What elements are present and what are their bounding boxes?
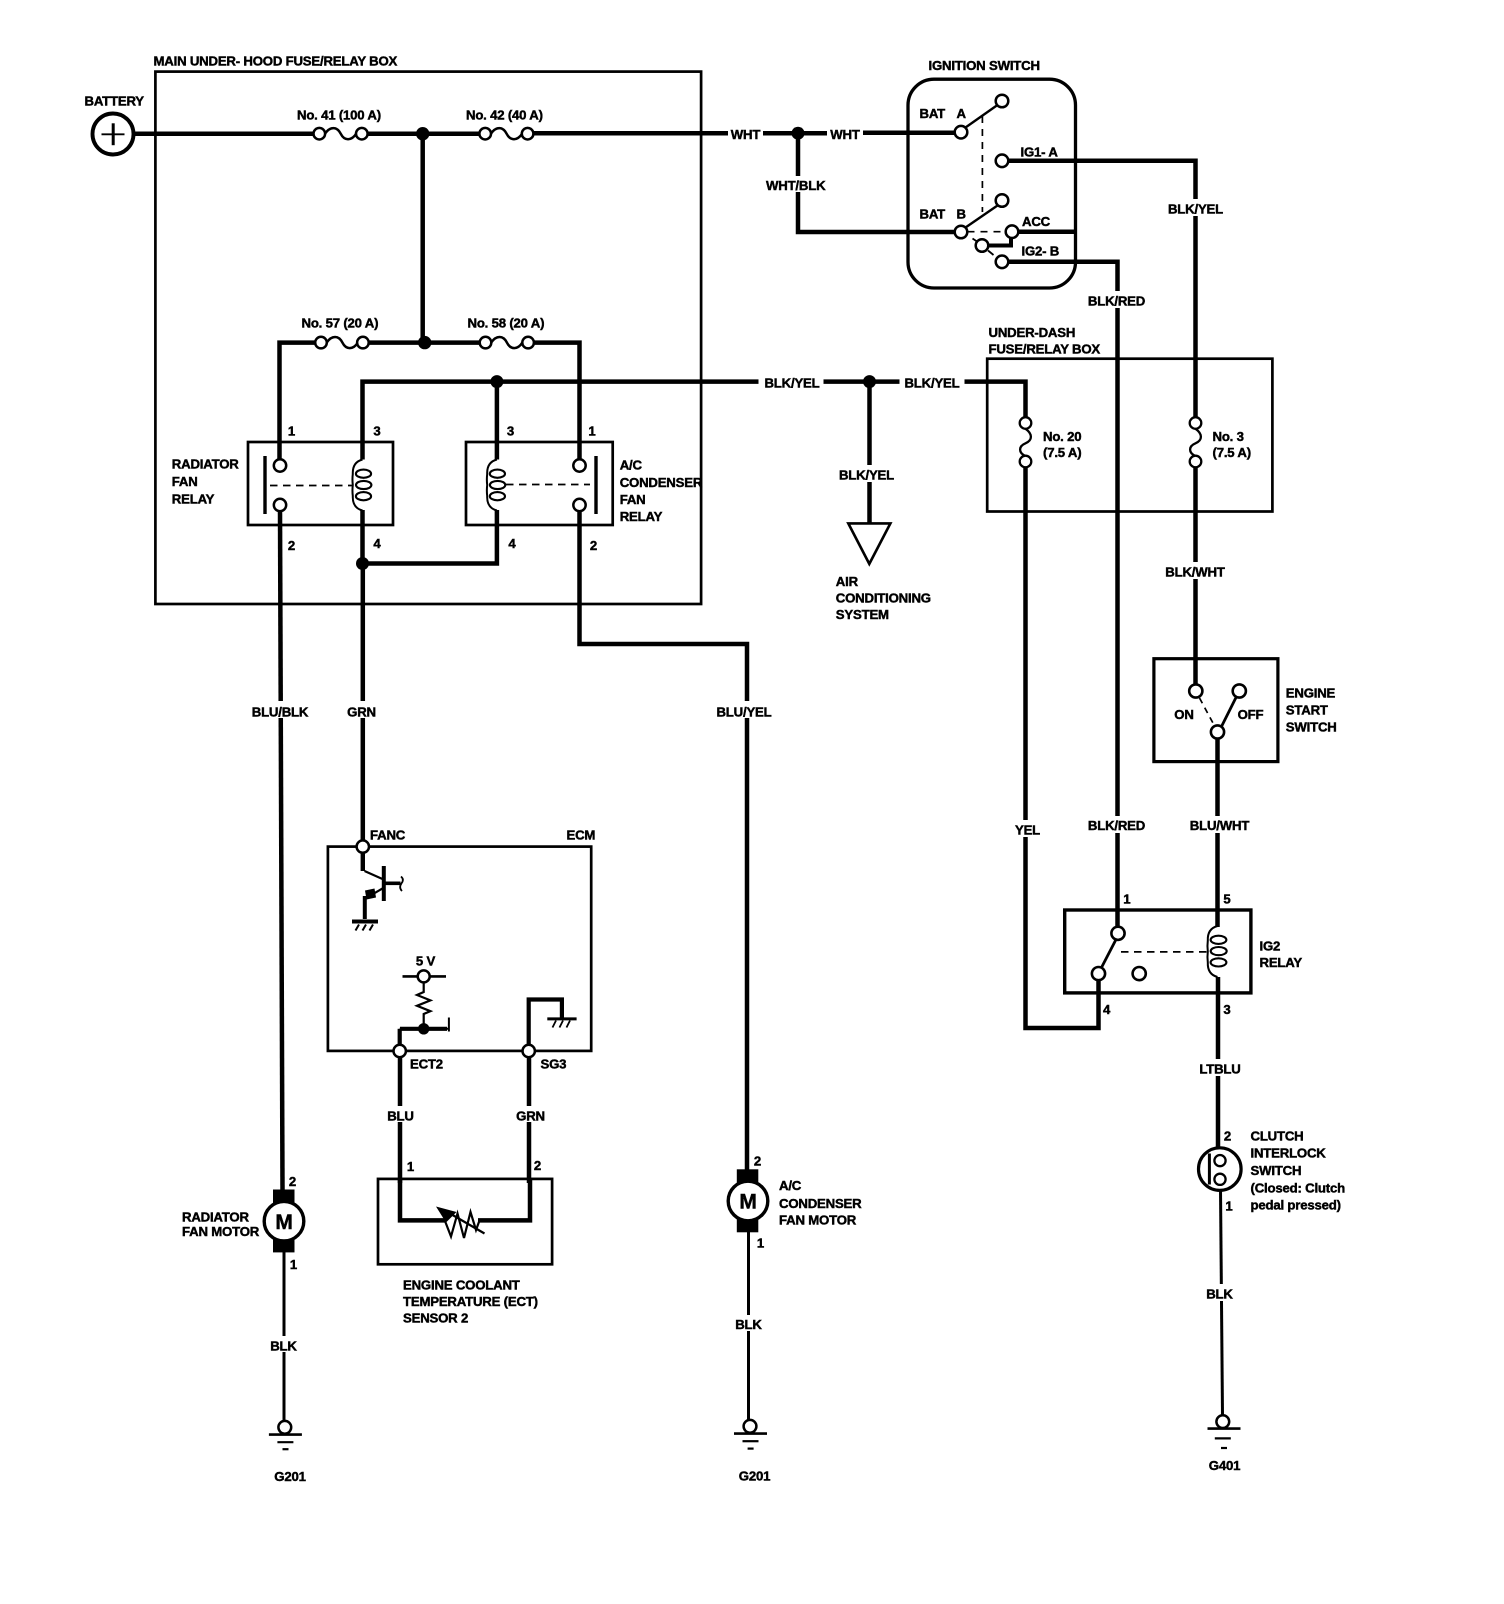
pin 2 contact [274,499,286,511]
wire battery to fuse41 [134,131,316,136]
svg-text:2: 2 [590,538,597,553]
blade BAT B [966,206,998,228]
svg-text:A/C: A/C [620,458,643,473]
svg-text:1: 1 [1123,892,1130,907]
svg-text:A/C: A/C [779,1178,802,1193]
wire GRN relay to ECM FANC [361,564,366,842]
svg-text:FAN MOTOR: FAN MOTOR [779,1213,857,1228]
junction node relay pin4 bus [356,557,369,570]
IG2 relay internals [1092,926,1227,980]
svg-text:2: 2 [289,1174,296,1189]
svg-text:SWITCH: SWITCH [1251,1163,1302,1178]
svg-text:TEMPERATURE (ECT): TEMPERATURE (ECT) [403,1294,538,1309]
label masks [251,125,1253,1352]
wire radiator motor to ground G201 [283,1252,286,1422]
svg-text:BLK: BLK [735,1317,762,1332]
svg-text:(7.5 A): (7.5 A) [1213,445,1251,460]
ignition switch internals [955,95,1019,268]
terminal pin4 [1092,967,1105,980]
svg-text:GRN: GRN [516,1109,545,1124]
coil loops [1211,936,1227,967]
svg-text:FAN MOTOR: FAN MOTOR [182,1224,260,1239]
svg-text:ON: ON [1174,707,1193,722]
svg-text:G201: G201 [274,1469,305,1484]
svg-text:(Closed: Clutch: (Closed: Clutch [1251,1181,1346,1196]
svg-text:3: 3 [373,424,380,439]
ground G201 left [269,1421,302,1449]
svg-text:IGNITION SWITCH: IGNITION SWITCH [929,58,1040,73]
junction node BLK/YEL at A/C coil [490,375,503,388]
svg-text:UNDER-DASH: UNDER-DASH [989,325,1076,340]
terminal ACC [1006,225,1019,238]
svg-text:M: M [275,1211,292,1234]
coil loops [356,470,372,501]
svg-text:5 V: 5 V [416,954,436,969]
svg-text:No. 57 (20 A): No. 57 (20 A) [302,316,379,331]
ECM transistor emitter ground [352,920,378,924]
svg-text:BLK: BLK [1206,1287,1233,1302]
svg-text:BLU/YEL: BLU/YEL [716,705,771,720]
terminal pin1 [1111,927,1124,940]
svg-text:BLK/WHT: BLK/WHT [1165,565,1225,580]
wire ACC stub [1018,229,1075,234]
svg-text:2: 2 [1224,1129,1231,1144]
terminal bottom [1211,725,1224,738]
ECM 5V supply [403,970,447,982]
svg-text:MAIN UNDER- HOOD FUSE/RELAY BO: MAIN UNDER- HOOD FUSE/RELAY BOX [154,54,398,69]
svg-text:BLK/YEL: BLK/YEL [839,468,894,483]
radiator fan relay box [248,442,393,525]
air conditioning system triangle [848,523,890,564]
svg-text:BLU/BLK: BLU/BLK [252,705,309,720]
battery [93,114,134,155]
link ACC wire [988,237,1011,246]
svg-text:RADIATOR: RADIATOR [172,457,239,472]
ground G401 [1208,1415,1241,1448]
fuse No.3 [1190,417,1202,467]
svg-text:ENGINE COOLANT: ENGINE COOLANT [403,1278,520,1293]
svg-text:3: 3 [507,424,514,439]
svg-text:1: 1 [588,424,595,439]
svg-text:FANC: FANC [370,828,406,843]
svg-text:A: A [957,106,967,121]
svg-text:No. 42 (40 A): No. 42 (40 A) [466,108,543,123]
blade OFF [1222,697,1237,727]
svg-text:IG1- A: IG1- A [1021,145,1059,160]
svg-text:ACC: ACC [1022,214,1051,229]
svg-text:pedal pressed): pedal pressed) [1251,1198,1341,1213]
svg-text:ECM: ECM [567,828,596,843]
terminal IG2-B [996,255,1009,268]
ECM pull-up resistor [417,983,430,1026]
ECM terminal FANC [357,840,369,852]
pin 2 contact [573,499,585,511]
wire YEL fuse No.20 down and to IG2 relay pin4 [1026,467,1099,1028]
wire BLK/YEL branch to air conditioning triangle [867,382,872,523]
wire fuse41 to fuse42 [365,131,482,136]
wire BLU/BLK radiator relay pin2 to motor [280,510,283,1190]
svg-text:BLK/YEL: BLK/YEL [764,376,819,391]
wire fuse57/58 row [280,343,580,461]
fuse No.41 [314,128,368,140]
dashed link vertical [981,116,983,212]
radiator fan motor [264,1190,304,1253]
fuse No.58 [480,337,534,349]
svg-text:LTBLU: LTBLU [1199,1062,1240,1077]
svg-text:BATTERY: BATTERY [85,94,145,109]
svg-text:2: 2 [288,538,295,553]
svg-text:IG2: IG2 [1260,939,1281,954]
svg-text:4: 4 [1103,1002,1111,1017]
terminal switch B top [996,194,1009,207]
terminal IG1-A [996,155,1009,168]
svg-text:YEL: YEL [1015,823,1040,838]
svg-text:No. 3: No. 3 [1213,429,1244,444]
coil arc [487,460,497,511]
svg-text:FAN: FAN [620,492,646,507]
svg-text:BLK/YEL: BLK/YEL [1168,202,1223,217]
svg-text:G201: G201 [739,1469,770,1484]
ground G201 right [734,1420,767,1449]
wire IG2-B to BLK/RED vertical to IG2 relay pin1 [1008,262,1118,928]
coil loops [490,470,506,501]
radiator fan relay internals [265,456,371,514]
junction node BLK/YEL at A/C triangle [863,375,876,388]
fuse No.57 [315,337,369,349]
dashed actuator line [1121,951,1207,953]
BOXES [155,72,1278,1265]
svg-text:INTERLOCK: INTERLOCK [1251,1146,1327,1161]
dash stub BAT B to NC [973,239,979,243]
wire engine start switch to BLU/WHT to IG2 relay coil pin5 [1215,738,1220,928]
dashed link [1200,698,1214,724]
svg-text:M: M [739,1191,756,1214]
wire BLU/YEL A/C relay pin2 to condenser motor [580,510,748,1170]
junction node battery bus top [416,127,429,140]
svg-text:BLK/RED: BLK/RED [1088,294,1145,309]
svg-text:CLUTCH: CLUTCH [1251,1129,1304,1144]
wire ECM BLU to ECT sensor pin1 [398,1057,403,1184]
A/C condenser fan motor [728,1169,768,1232]
svg-text:BLK/RED: BLK/RED [1088,818,1145,833]
A/C condenser fan relay box [466,442,613,525]
ignition switch box [908,79,1076,288]
terminal OFF [1233,684,1246,697]
ECM terminal SG3 [523,1045,535,1057]
svg-text:RELAY: RELAY [620,509,663,524]
svg-text:CONDITIONING: CONDITIONING [836,591,931,606]
terminal switch A top [996,95,1009,108]
fuse No.42 [479,128,533,140]
terminal top [1189,684,1202,697]
terminal NO [1133,967,1146,980]
svg-text:AIR: AIR [836,574,859,589]
svg-text:WHT: WHT [731,127,761,142]
svg-text:WHT: WHT [830,127,860,142]
wire radiator relay pin4 to A/C relay pin4, junction [363,510,497,564]
junction node ECM resistor [418,1023,429,1034]
svg-text:No. 41 (100 A): No. 41 (100 A) [297,108,381,123]
clutch interlock switch [1199,1148,1242,1191]
svg-text:4: 4 [373,536,381,551]
svg-text:BLU/WHT: BLU/WHT [1190,818,1250,833]
dashed link BAT B to ACC [968,231,1007,233]
svg-text:BLK: BLK [270,1339,297,1354]
svg-text:2: 2 [534,1158,541,1173]
ECT sensor thermistor [436,1207,485,1239]
svg-text:IG2- B: IG2- B [1022,244,1060,259]
pin 1 contact [573,459,585,471]
svg-text:BLU: BLU [387,1109,414,1124]
svg-text:RELAY: RELAY [1260,955,1303,970]
dashed actuator line [506,484,590,486]
svg-text:(7.5 A): (7.5 A) [1043,445,1081,460]
svg-text:BAT: BAT [920,207,946,222]
svg-text:BAT: BAT [920,106,946,121]
wire ECM GRN to ECT sensor pin2 [527,1057,532,1184]
svg-text:3: 3 [1223,1002,1230,1017]
svg-text:1: 1 [407,1159,414,1174]
svg-text:RELAY: RELAY [172,492,215,507]
wire fuse42 to ignition BAT A [531,130,956,135]
svg-text:WHT/BLK: WHT/BLK [766,178,826,193]
svg-text:CONDENSER: CONDENSER [779,1196,862,1211]
svg-text:B: B [957,207,966,222]
svg-text:SYSTEM: SYSTEM [836,607,889,622]
svg-text:1: 1 [288,424,295,439]
svg-text:No. 58 (20 A): No. 58 (20 A) [468,316,545,331]
svg-text:RADIATOR: RADIATOR [182,1210,249,1225]
svg-text:No. 20: No. 20 [1043,429,1081,444]
svg-text:2: 2 [754,1154,761,1169]
svg-text:BLK/YEL: BLK/YEL [904,376,959,391]
svg-text:FAN: FAN [172,474,198,489]
terminal BAT B [955,226,968,239]
svg-text:SENSOR 2: SENSOR 2 [403,1311,468,1326]
wire main vertical battery bus [420,134,425,343]
svg-text:ENGINE: ENGINE [1286,686,1336,701]
junction node fuse57/58 [418,336,431,349]
ECM node tick [400,1018,449,1032]
main under-hood fuse/relay box [155,72,701,604]
ECM transistor Q [352,852,403,931]
svg-text:G401: G401 [1209,1458,1240,1473]
coil arc [1207,926,1217,977]
ECM terminal ECT2 [394,1045,406,1057]
IG2 relay box [1065,910,1251,993]
svg-text:CONDENSER: CONDENSER [620,475,703,490]
svg-text:START: START [1286,703,1328,718]
fuse No.20 [1020,417,1032,467]
terminal NC small [976,239,989,252]
engine start switch box [1154,659,1278,762]
wire condenser motor to ground G201 [747,1232,750,1421]
ECM box [328,847,591,1051]
contact bar [263,456,266,514]
ECM SG3 internal ground [529,1000,577,1047]
svg-text:1: 1 [757,1236,764,1251]
blade pin1 [1102,940,1117,968]
svg-text:GRN: GRN [347,705,376,720]
wire IG1-A to BLK/YEL vertical, fuse No.3, BLK/WHT to engine start switch [1008,161,1196,691]
wire junction to A/C relay coil pin3 [495,382,500,460]
svg-text:FUSE/RELAY BOX: FUSE/RELAY BOX [989,342,1101,357]
pin 1 contact [274,459,286,471]
contact bar [594,456,597,514]
svg-text:OFF: OFF [1238,707,1264,722]
dashed actuator line [270,485,353,487]
wire ECT sensor internal resistor loop [400,1180,530,1220]
wire clutch switch to BLK to ground G401 [1221,1190,1223,1416]
under-dash fuse/relay box [987,359,1272,512]
svg-text:1: 1 [290,1257,297,1272]
blade BAT A [966,105,998,128]
svg-text:ECT2: ECT2 [410,1057,443,1072]
wire IG2 relay pin3 to LTBLU to clutch switch [1216,977,1221,1149]
junction node WHT split [792,127,805,140]
wire junction to WHT/BLK to BAT B [798,133,956,232]
engine start switch internals [1189,684,1246,738]
svg-text:SG3: SG3 [541,1057,567,1072]
ECT sensor 2 box [378,1179,552,1264]
svg-text:4: 4 [508,536,516,551]
A/C condenser fan relay internals [487,456,596,514]
dash stub NC to IG2-B [988,251,994,256]
coil arc [352,460,362,511]
svg-text:1: 1 [1225,1199,1232,1214]
wire BLK/YEL horizontal row [363,382,1026,460]
svg-text:5: 5 [1223,892,1230,907]
terminal BAT A [955,126,968,139]
svg-text:SWITCH: SWITCH [1286,720,1337,735]
